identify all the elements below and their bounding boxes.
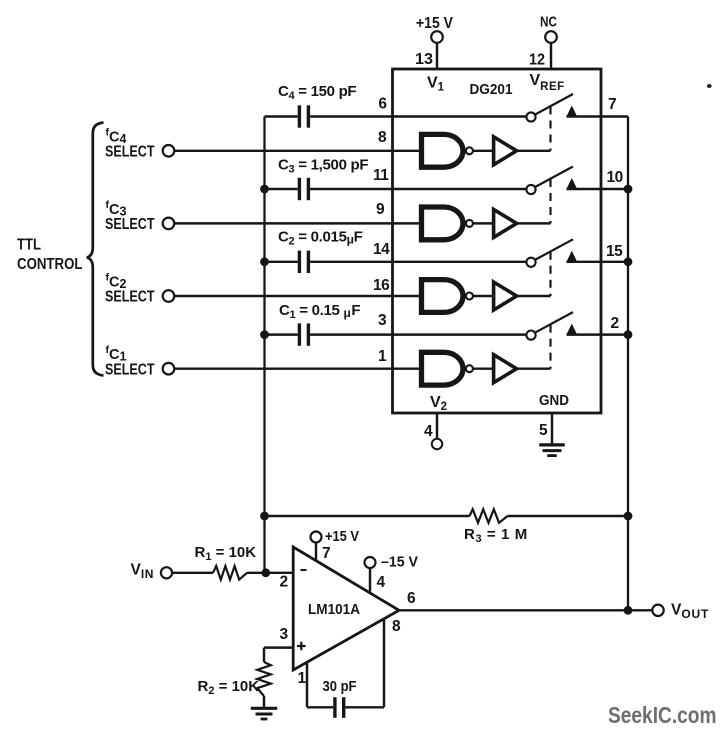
svg-text:DG201: DG201 [470,82,513,98]
svg-text:3: 3 [280,626,289,643]
terminal NC [540,14,557,43]
wire compensation cap to pin 8 [345,619,384,708]
switch S1 blade [535,312,573,333]
junction feedback left [260,512,269,521]
capacitor C1 value label [279,302,360,321]
switch S4 throw contact arrow [567,106,577,116]
capacitor C4 plates [299,105,308,127]
pin label 3 [378,312,387,329]
svg-text:9: 9 [376,201,385,218]
svg-text:2: 2 [611,315,620,332]
wire R2 to ground [263,696,265,707]
svg-text:SELECT: SELECT [105,289,155,306]
terminal VIN [131,562,173,582]
wire buffer to actuator [518,222,551,224]
ground symbol (R2) [251,708,278,719]
pin label 4 [424,423,433,440]
pin label 1 [378,348,387,365]
junction row 3 left rail [260,257,269,266]
svg-text:12: 12 [529,52,545,69]
ground symbol (pin 5) [539,445,565,456]
switch S3 pole contact [526,185,535,194]
svg-text:CONTROL: CONTROL [17,256,83,273]
wire row 4 left segment [265,333,298,335]
wire row 1 left segment [265,115,298,117]
wire row 3 right (pin 15) [567,261,629,263]
pin label 15 [606,243,623,260]
pin label 10 [607,169,623,186]
minus sign [301,569,307,571]
svg-text:R1 = 10K: R1 = 10K [195,544,257,563]
resistor R3 [470,509,508,523]
svg-text:LM101A: LM101A [308,602,360,618]
svg-text:+15 V: +15 V [416,15,454,32]
pin label 4 [377,574,386,591]
wire row 2 right (pin 10) [567,188,629,190]
svg-text:SELECT: SELECT [105,361,155,378]
buffer driver B3 [494,282,517,310]
wire plus input [264,648,293,662]
switch S3 actuator (dashed) [549,179,551,223]
label GND (IC bottom-right) [539,393,569,409]
watermark SeekIC.com [608,702,717,728]
wire output [399,609,652,611]
pin label 13 [415,51,433,68]
svg-text:10: 10 [607,169,623,186]
svg-text:TTL: TTL [17,237,41,254]
label DG201 [470,82,513,98]
wire select 1 to gate (pin 8) [174,150,419,152]
wire pin 13 to V1 [436,43,438,69]
capacitor C1 plates [299,323,308,345]
label V1 (IC top-left) [427,75,445,94]
wire select 3 to gate (pin 16) [174,295,419,297]
pin label 7 [608,96,617,113]
buffer driver B4 [494,355,517,383]
wire feedback left [265,515,470,517]
svg-text:7: 7 [608,96,617,113]
junction row 3 right rail [624,257,633,266]
pin label 12 [529,52,545,69]
speck artifact [707,84,712,88]
svg-text:4: 4 [377,574,386,591]
label LM101A [308,602,360,618]
pin label 1 [298,670,307,687]
plus sign [297,642,306,651]
label VREF [530,72,565,93]
capacitor C2 value label [278,229,363,248]
pin label 16 [373,277,390,294]
junction row 4 right rail [624,330,633,339]
svg-text:SELECT: SELECT [105,143,155,160]
wire select 4 to gate (pin 1) [174,367,419,369]
wire gate to buffer [473,222,493,224]
svg-text:SeekIC.com: SeekIC.com [608,702,717,728]
wire row 2 to switch [310,188,526,190]
wire row 2 left segment [265,188,298,190]
wire row 1 to switch [310,115,526,117]
svg-text:SELECT: SELECT [105,216,155,233]
svg-text:GND: GND [539,393,569,409]
pin label 6 [407,590,416,607]
svg-text:4: 4 [424,423,433,440]
buffer driver B1 [494,137,517,165]
svg-text:7: 7 [322,545,331,562]
wire pin 12 to VREF [550,43,552,69]
terminal pin 4 open [432,439,442,449]
pin label 11 [373,167,389,184]
junction output node [624,606,633,615]
svg-text:13: 13 [415,51,433,68]
capacitor C2 plates [299,251,308,273]
wire gate to buffer [473,150,493,152]
terminal VOUT [652,602,709,622]
terminal fC3 SELECT [105,199,174,233]
svg-text:2: 2 [280,574,289,591]
label R2 = 10K [198,678,260,697]
wire feedback right [508,515,629,517]
buffer driver B2 [494,209,517,237]
switch S4 blade [535,94,573,115]
capacitor C4 value label [278,83,356,102]
switch S4 actuator (dashed) [549,107,551,151]
switch S1 actuator (dashed) [549,325,551,369]
svg-text:R3 = 1 M: R3 = 1 M [464,526,528,545]
wire buffer to actuator [518,150,551,152]
switch S1 pole contact [526,331,535,340]
wire output rail (right) [627,117,629,611]
NAND gate G3 [422,280,473,313]
IC U1 DG201 outline [393,69,602,413]
capacitor C3 plates [299,178,308,200]
svg-text:6: 6 [378,96,387,113]
switch S4 pole contact [526,112,535,121]
terminal +15 V (op-amp pin 7) [311,528,360,545]
svg-text:30 pF: 30 pF [323,678,357,695]
pin label 9 [376,201,385,218]
switch S2 blade [535,239,573,260]
wire op-amp pin 4 [369,568,371,593]
resistor R1 [213,566,247,580]
brace [87,123,104,376]
wire row 1 right (pin 7) [567,115,629,117]
switch S3 throw contact arrow [567,178,577,188]
svg-text:+15 V: +15 V [325,528,359,545]
switch S2 actuator (dashed) [549,252,551,296]
pin label 6 [378,96,387,113]
NAND gate G1 [422,134,473,167]
wire VIN to R1 [172,572,213,574]
resistor R2 [257,662,271,696]
wire gate to buffer [473,367,493,369]
pin 5 wire (GND) [551,413,553,443]
svg-text:16: 16 [373,277,390,294]
terminal -15 V (op-amp pin 4) [365,554,419,571]
capacitor C3 value label [278,157,368,176]
terminal fC4 SELECT [105,126,174,160]
label TTL CONTROL [17,237,83,274]
wire R1 to inverting input [247,572,293,574]
wire select 2 to gate (pin 9) [174,222,419,224]
junction row 2 left rail [260,185,269,194]
pin label 5 [539,422,548,439]
wire row 4 to switch [310,333,526,335]
pin 4 wire (V2) [436,413,438,439]
svg-text:14: 14 [373,241,390,258]
pin label 8 [392,618,401,635]
pin label 2 [280,574,289,591]
wire capacitor bus (left rail) [263,117,265,573]
wire buffer to actuator [518,295,551,297]
switch S3 blade [535,167,573,188]
NAND gate G4 [422,352,473,385]
wire row 3 to switch [310,261,526,263]
wire op-amp pin 7 [315,543,317,561]
terminal +15 V supply [416,15,454,43]
switch S1 throw contact arrow [567,324,577,334]
junction row 2 right rail [624,185,633,194]
svg-text:15: 15 [606,243,623,260]
label V2 (IC bottom-left) [430,394,447,413]
svg-text:1: 1 [298,670,307,687]
pin label 14 [373,241,390,258]
pin label 3 [280,626,289,643]
NAND gate G2 [422,207,473,240]
capacitor 30 pF plates [335,697,344,718]
label R1 = 10K [195,544,257,563]
svg-text:5: 5 [539,422,548,439]
junction node inverting input [261,568,270,577]
svg-text:8: 8 [378,129,387,146]
svg-text:3: 3 [378,312,387,329]
svg-text:1: 1 [378,348,387,365]
op-amp U2 LM101A [293,547,399,670]
wire row 3 left segment [265,261,298,263]
terminal fC2 SELECT [105,272,174,306]
terminal fC1 SELECT [105,344,174,378]
wire gate to buffer [473,295,493,297]
svg-text:11: 11 [373,167,389,184]
svg-text:R2 = 10K: R2 = 10K [198,678,260,697]
svg-text:6: 6 [407,590,416,607]
switch S2 throw contact arrow [567,251,577,261]
junction feedback right [624,512,633,521]
wire row 4 right (pin 2) [567,333,629,335]
pin label 8 [378,129,387,146]
svg-text:–15 V: –15 V [381,554,418,571]
wire buffer to actuator [518,367,551,369]
svg-text:NC: NC [540,14,557,31]
junction row 4 left rail [260,330,269,339]
switch S2 pole contact [526,258,535,267]
label R3 = 1 M [464,526,528,545]
pin label 2 [611,315,620,332]
pin label 7 [322,545,331,562]
wire pin 1 to compensation cap [307,664,333,708]
svg-text:8: 8 [392,618,401,635]
label 30 pF [323,678,357,695]
